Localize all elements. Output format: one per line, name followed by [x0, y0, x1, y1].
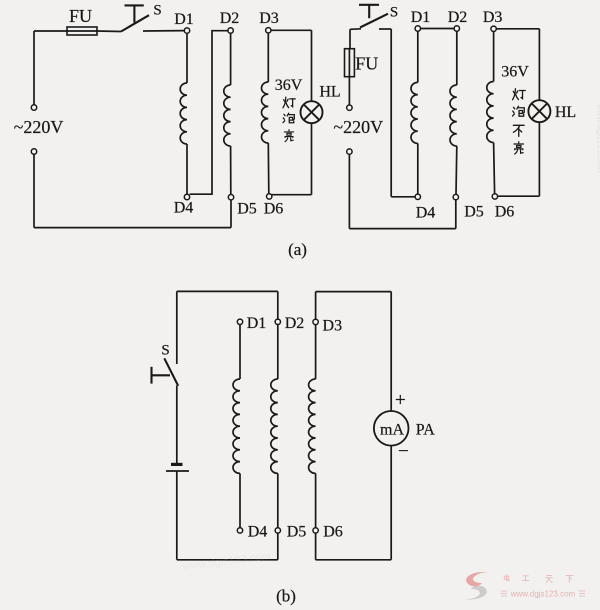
svg-text:PA: PA [416, 422, 435, 439]
svg-text:S: S [153, 3, 161, 19]
svg-text:D4: D4 [248, 524, 268, 541]
svg-text:~220V: ~220V [333, 117, 383, 137]
svg-text:D1: D1 [174, 11, 194, 28]
svg-text:36V: 36V [501, 64, 529, 81]
svg-text:D3: D3 [323, 318, 343, 335]
svg-text:D5: D5 [464, 204, 484, 221]
svg-text:D2: D2 [285, 315, 305, 332]
svg-text:D4: D4 [174, 200, 194, 217]
svg-text:D1: D1 [247, 315, 267, 332]
svg-text:~220V: ~220V [14, 117, 64, 137]
svg-text:−: − [398, 441, 409, 462]
svg-text:HL: HL [555, 104, 576, 121]
svg-text:D3: D3 [259, 10, 279, 27]
svg-text:36V: 36V [275, 77, 303, 94]
svg-text:D4: D4 [416, 205, 436, 222]
svg-text:D3: D3 [483, 9, 503, 26]
svg-text:S: S [161, 343, 169, 359]
svg-text:D1: D1 [411, 9, 431, 26]
svg-text:(b): (b) [276, 587, 296, 606]
svg-text:www.dgjs123.com: www.dgjs123.com [510, 590, 576, 599]
svg-text:(a): (a) [288, 240, 307, 259]
svg-text:D2: D2 [220, 10, 240, 27]
svg-text:D6: D6 [264, 201, 284, 218]
svg-text:FU: FU [355, 54, 378, 74]
svg-text:D5: D5 [237, 201, 257, 218]
svg-text:D6: D6 [495, 204, 515, 221]
svg-text:FU: FU [69, 6, 92, 26]
svg-text:www.dgjs123.com: www.dgjs123.com [596, 103, 600, 173]
svg-text:D6: D6 [323, 524, 343, 541]
svg-text:mA: mA [380, 422, 404, 439]
svg-text:D5: D5 [287, 524, 307, 541]
svg-text:S: S [390, 5, 398, 21]
svg-text:HL: HL [319, 84, 340, 101]
svg-text:D2: D2 [448, 9, 468, 26]
svg-text:+: + [395, 390, 406, 411]
